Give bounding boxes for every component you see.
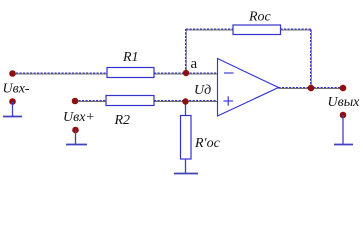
ground below Uвых : stem	[342, 115, 344, 145]
terminal dot Uвх+	[72, 98, 79, 105]
ground below Uвх- : dot	[9, 98, 16, 105]
resistor R2	[106, 96, 154, 106]
node a dot	[183, 70, 189, 76]
wire feedback top left segment	[186, 29, 233, 30]
wire feedback top right segment	[281, 29, 312, 30]
wire lower node to op-amp non-inverting input	[186, 101, 219, 102]
ground below Uвх+ : bar	[66, 144, 87, 146]
svg-text:Uвх+: Uвх+	[63, 110, 95, 125]
output terminal dot	[340, 85, 347, 92]
wire output from apex to terminal	[279, 88, 344, 89]
wire R1 right to node a	[154, 73, 186, 74]
wire feedback drop to output	[311, 30, 312, 89]
wire lower node drop to R'oc	[185, 101, 187, 116]
resistor R1	[107, 68, 154, 78]
wire feedback riser from node a up	[186, 29, 187, 73]
ground below Uвх+ : stem	[75, 130, 77, 145]
ground below Uвх- : stem	[12, 102, 14, 117]
ground below Uвых : bar	[334, 144, 353, 146]
ground below Uвх- : bar	[3, 116, 22, 118]
svg-text:Roc: Roc	[248, 10, 272, 25]
ground below Uвх+ : dot	[72, 127, 79, 134]
op-amp minus sign	[224, 72, 234, 74]
op-amp plus sign	[224, 96, 234, 105]
op-amp U1 triangle	[218, 59, 279, 117]
resistor Roc	[233, 25, 281, 35]
node dot at R2 / R'oc junction	[182, 98, 188, 104]
wire Uвх- terminal to R1 left	[13, 73, 108, 74]
svg-text:R1: R1	[122, 50, 139, 65]
terminal dot Uвх-	[9, 70, 16, 77]
wire Uвх+ terminal to R2 left	[75, 101, 106, 102]
ground below Uвых : dot	[340, 112, 347, 119]
wire R'oc bottom to ground	[185, 159, 187, 173]
svg-text:Uвых: Uвых	[328, 95, 361, 110]
wire R2 right to lower node	[154, 101, 186, 102]
junction dot feedback/output	[308, 85, 315, 92]
resistor R'oc	[181, 116, 192, 160]
svg-text:R2: R2	[114, 113, 131, 128]
wire node a to op-amp inverting input	[186, 73, 218, 74]
svg-text:a: a	[191, 56, 198, 72]
svg-text:R′oc: R′oc	[194, 136, 221, 151]
svg-text:Uд: Uд	[194, 83, 211, 98]
ground under R'oc	[174, 173, 198, 175]
svg-text:Uвх-: Uвх-	[3, 82, 30, 97]
